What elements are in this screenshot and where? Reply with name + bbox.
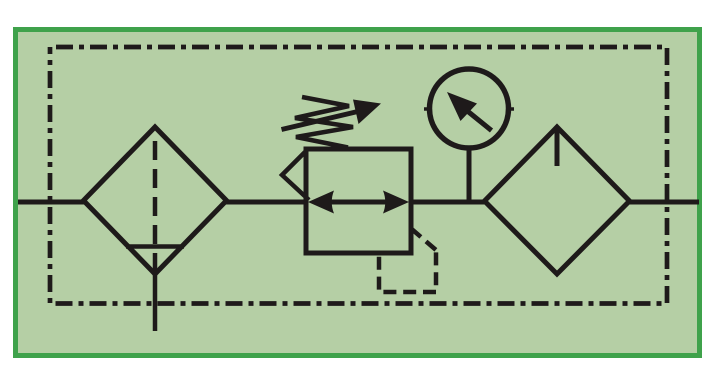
enclosure boundary (dash-dot assembly box) — [50, 47, 667, 304]
gauge tick left — [424, 107, 428, 111]
relief vent triangle — [282, 152, 309, 200]
drain line — [153, 272, 158, 331]
regulator flow arrow (double-headed) — [308, 191, 409, 214]
adjustment spring (zigzag) — [295, 97, 353, 148]
water separator baffle — [126, 244, 184, 249]
gauge needle — [447, 92, 492, 131]
wire: outlet line — [629, 200, 699, 205]
wire: regulator to lubricator — [410, 200, 487, 205]
pilot line diagonal tap — [411, 229, 436, 251]
wire: filter to regulator — [226, 200, 307, 205]
lubricator L1 (diamond) — [485, 127, 630, 274]
regulator R1 (body) — [306, 149, 411, 253]
adjustment arrow — [282, 100, 382, 130]
pilot line (dashed feedback loop) — [379, 248, 436, 292]
pressure gauge G1 — [430, 69, 509, 148]
wire: inlet line — [18, 200, 84, 205]
lubricator drip stub — [555, 130, 560, 166]
gauge tick right — [510, 107, 514, 111]
filter F1 (diamond) — [84, 127, 227, 274]
gauge stem — [467, 150, 472, 202]
filter element (dashed centre line) — [153, 141, 158, 273]
